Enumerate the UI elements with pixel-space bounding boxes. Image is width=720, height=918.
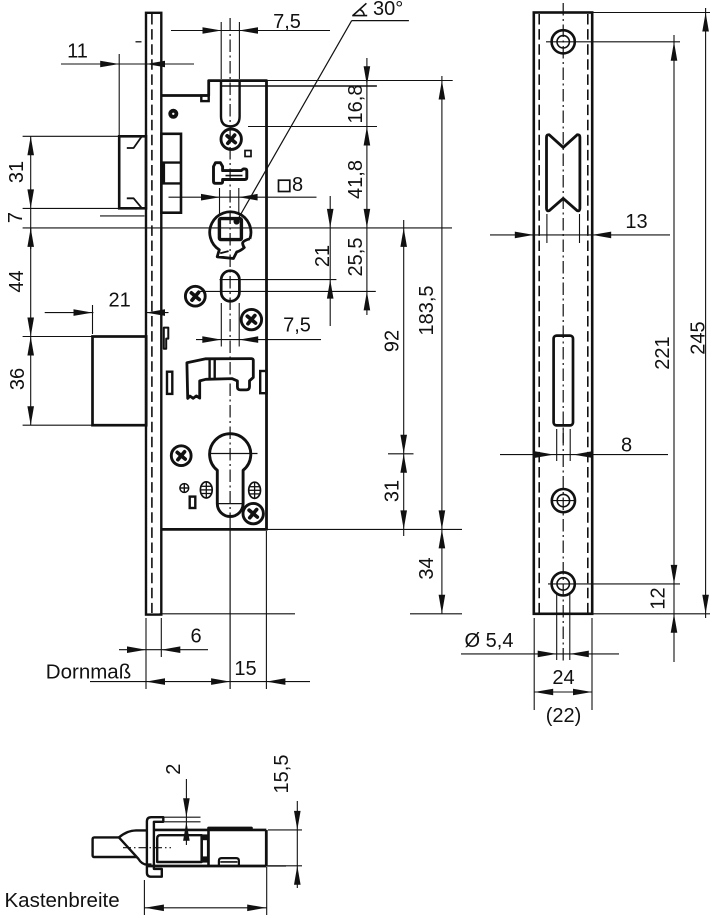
change lever slot line 2 (213, 359, 215, 379)
svg-text:Kastenbreite: Kastenbreite (5, 889, 120, 912)
dimension 221 (652, 35, 677, 584)
latch bevel mark top (127, 137, 142, 148)
dimension 6 (plate thickness) (119, 618, 208, 689)
cylinder horizontal centerline (209, 453, 258, 455)
dimension 21 vertical (312, 196, 334, 326)
case top reference (detail) (268, 829, 302, 831)
screw hole H1 (546, 30, 680, 53)
dimension 34 (416, 529, 445, 613)
oval upper reference line B (220, 279, 337, 281)
lock case (Schlosskasten) outline (161, 81, 266, 530)
dimension 7,5 top (latch slot) (171, 11, 330, 79)
euro cylinder hole (210, 434, 251, 517)
dimension 21 horizontal (bolt projection) (45, 290, 169, 335)
case bottom edge (top view) (147, 865, 286, 868)
ref line 16.8 top (221, 85, 377, 87)
dimension 7 (5, 208, 34, 249)
dimension 92 (382, 220, 408, 454)
dimension 7,5 lower (oval slot) (196, 303, 321, 347)
latch tail division upper (161, 161, 181, 163)
nut square hole (8 mm) (219, 219, 241, 240)
case back box (top view) (209, 828, 252, 866)
latch spring lever (214, 163, 247, 184)
dimension square 8 line (169, 188, 317, 215)
ref stub below latch (100, 215, 145, 217)
latch bevel (top view) (119, 830, 152, 864)
plate bottom extension left (160, 613, 296, 615)
case top reference line (267, 80, 453, 82)
svg-text:44: 44 (6, 270, 28, 292)
latch bevel mark bottom (127, 198, 142, 208)
ref line bolt bottom (23, 424, 93, 426)
screw hole H4 (548, 572, 680, 595)
svg-text:36: 36 (7, 368, 29, 390)
plate bottom reference right (592, 613, 710, 615)
svg-text:245: 245 (688, 321, 710, 354)
dimension 183,5 (416, 76, 445, 529)
svg-text:31: 31 (6, 161, 28, 183)
bolt stump guide right (260, 371, 266, 393)
faceplate channel section (147, 817, 163, 877)
dimension 24 (534, 667, 592, 695)
small square hole below S1 (245, 151, 251, 157)
faceplate vertical centerline (562, 3, 564, 662)
dimension 25,5 vertical (345, 58, 370, 315)
oval lower reference line C (200, 290, 376, 292)
nut follower body (210, 212, 251, 259)
svg-text:25,5: 25,5 (345, 238, 367, 277)
svg-text:15: 15 (234, 658, 256, 680)
svg-text:7,5: 7,5 (273, 11, 301, 33)
ref line bolt top (23, 336, 93, 338)
Kastenbreite dimension line (144, 905, 266, 912)
change lever slot line 1 (208, 359, 210, 379)
latch cutout (547, 135, 580, 211)
svg-text:11: 11 (67, 41, 88, 63)
faceplate centerline (dashed) (151, 14, 153, 613)
svg-text:16,8: 16,8 (345, 85, 367, 124)
cylinder arc joint line (217, 503, 243, 505)
screw S1 (221, 129, 241, 149)
dimension 12 (648, 584, 678, 662)
svg-text:13: 13 (625, 211, 647, 233)
latch block divider (202, 834, 209, 862)
faceplate front view outline (534, 13, 592, 614)
svg-text:21: 21 (312, 245, 334, 267)
bolt stump guide left (167, 372, 172, 394)
latch tail division lower (161, 182, 181, 184)
Kastenbreite label (5, 889, 120, 912)
screw S2 (185, 286, 205, 306)
case right edge (top view) (265, 830, 268, 866)
spring lever inner line (226, 175, 243, 177)
latch centerline detail (123, 847, 171, 849)
dimension 36 (bolt height) (7, 337, 34, 426)
tick stub top left (136, 41, 142, 43)
dimension 15,5 (271, 755, 301, 888)
case top step notch (201, 96, 208, 102)
svg-text:12: 12 (648, 587, 670, 609)
latch guide slot (U slot) (221, 81, 240, 127)
case right edge extension (265, 531, 267, 689)
svg-text:183,5: 183,5 (416, 285, 438, 335)
square-8 label (279, 174, 304, 196)
dimension 11 (latch projection) (61, 41, 194, 137)
ref line latch top (23, 135, 120, 137)
small cross hole (180, 484, 189, 493)
mechanism centerline (229, 18, 231, 524)
Kastenbreite extension lines (144, 867, 266, 915)
screw S4 (171, 446, 191, 466)
small rect hole (190, 497, 196, 508)
svg-text:Ø 5,4: Ø 5,4 (465, 630, 514, 652)
svg-text:8: 8 (292, 174, 303, 196)
dimension 245 (688, 8, 710, 618)
dimension 31 (latch height) (6, 136, 34, 208)
latch tail middle edge (162, 163, 165, 184)
svg-text:6: 6 (190, 626, 201, 648)
slot 8 (front view) (554, 336, 573, 426)
cutout extension lines (547, 214, 580, 243)
svg-text:41,8: 41,8 (345, 160, 367, 199)
screw hole H3 (552, 489, 576, 512)
centerline below case (229, 524, 231, 689)
svg-text:24: 24 (552, 667, 574, 689)
plate top reference (592, 12, 710, 14)
plate bottom ref segment (410, 613, 462, 615)
svg-text:34: 34 (416, 557, 438, 579)
slot 8 extension lines (557, 429, 571, 461)
change lever (Wechsel) (187, 359, 253, 399)
svg-text:21: 21 (108, 290, 130, 312)
faceplate fold line right (587, 14, 589, 613)
rivet (168, 109, 178, 119)
Dornmass dimension line (90, 678, 310, 685)
latch nose (top view) (93, 837, 137, 857)
case bottom reference line (267, 528, 463, 530)
case bottom reference (detail) (268, 865, 302, 867)
deadbolt head (93, 337, 147, 426)
deadbolt tail guide (164, 328, 169, 349)
latch block in case (157, 835, 201, 862)
ref line slot bottom (248, 126, 377, 128)
label 15 (234, 658, 256, 680)
oval slot (221, 271, 239, 302)
dimension 44 (6, 228, 34, 337)
svg-text:(22): (22) (546, 705, 582, 727)
svg-text:15,5: 15,5 (271, 755, 293, 794)
plate width extension lines (534, 618, 592, 710)
svg-text:31: 31 (382, 480, 404, 502)
dimension 13 (490, 211, 670, 238)
dimension 2 (flange) (163, 764, 201, 845)
dimension 31 lower (382, 454, 408, 536)
svg-text:7,5: 7,5 (283, 315, 311, 337)
svg-text:30°: 30° (373, 0, 403, 20)
hole diameter extension lines (557, 592, 570, 660)
faceplate fold line left (538, 14, 540, 613)
svg-text:2: 2 (163, 764, 185, 775)
nut centre reference line A (23, 227, 452, 229)
faceplate (Stulp) side view (146, 13, 161, 615)
detent clip (top view) (219, 858, 239, 866)
Dornmass label (46, 661, 131, 684)
dimension diameter 5,4 (461, 630, 619, 657)
ref line latch bottom (23, 207, 120, 209)
svg-text:Dornmaß: Dornmaß (46, 661, 131, 684)
svg-text:92: 92 (382, 330, 404, 352)
screw S3 (241, 309, 261, 329)
cylinder centre tick (388, 453, 414, 455)
angle symbol and 30deg label (352, 0, 403, 20)
svg-text:8: 8 (621, 435, 632, 457)
latch bolt head (Falle) (119, 136, 146, 208)
case top edge (top view) (154, 829, 266, 832)
svg-text:7: 7 (5, 212, 27, 223)
screw S5 (243, 503, 263, 523)
angle leader 30deg (234, 21, 409, 225)
nut follower foot inner (220, 251, 228, 253)
oval boss left (200, 482, 212, 498)
latch tail block (161, 134, 181, 213)
dimension 8 (500, 435, 668, 458)
svg-text:221: 221 (652, 336, 674, 369)
label (22) (546, 705, 582, 727)
oval boss right (249, 482, 261, 498)
